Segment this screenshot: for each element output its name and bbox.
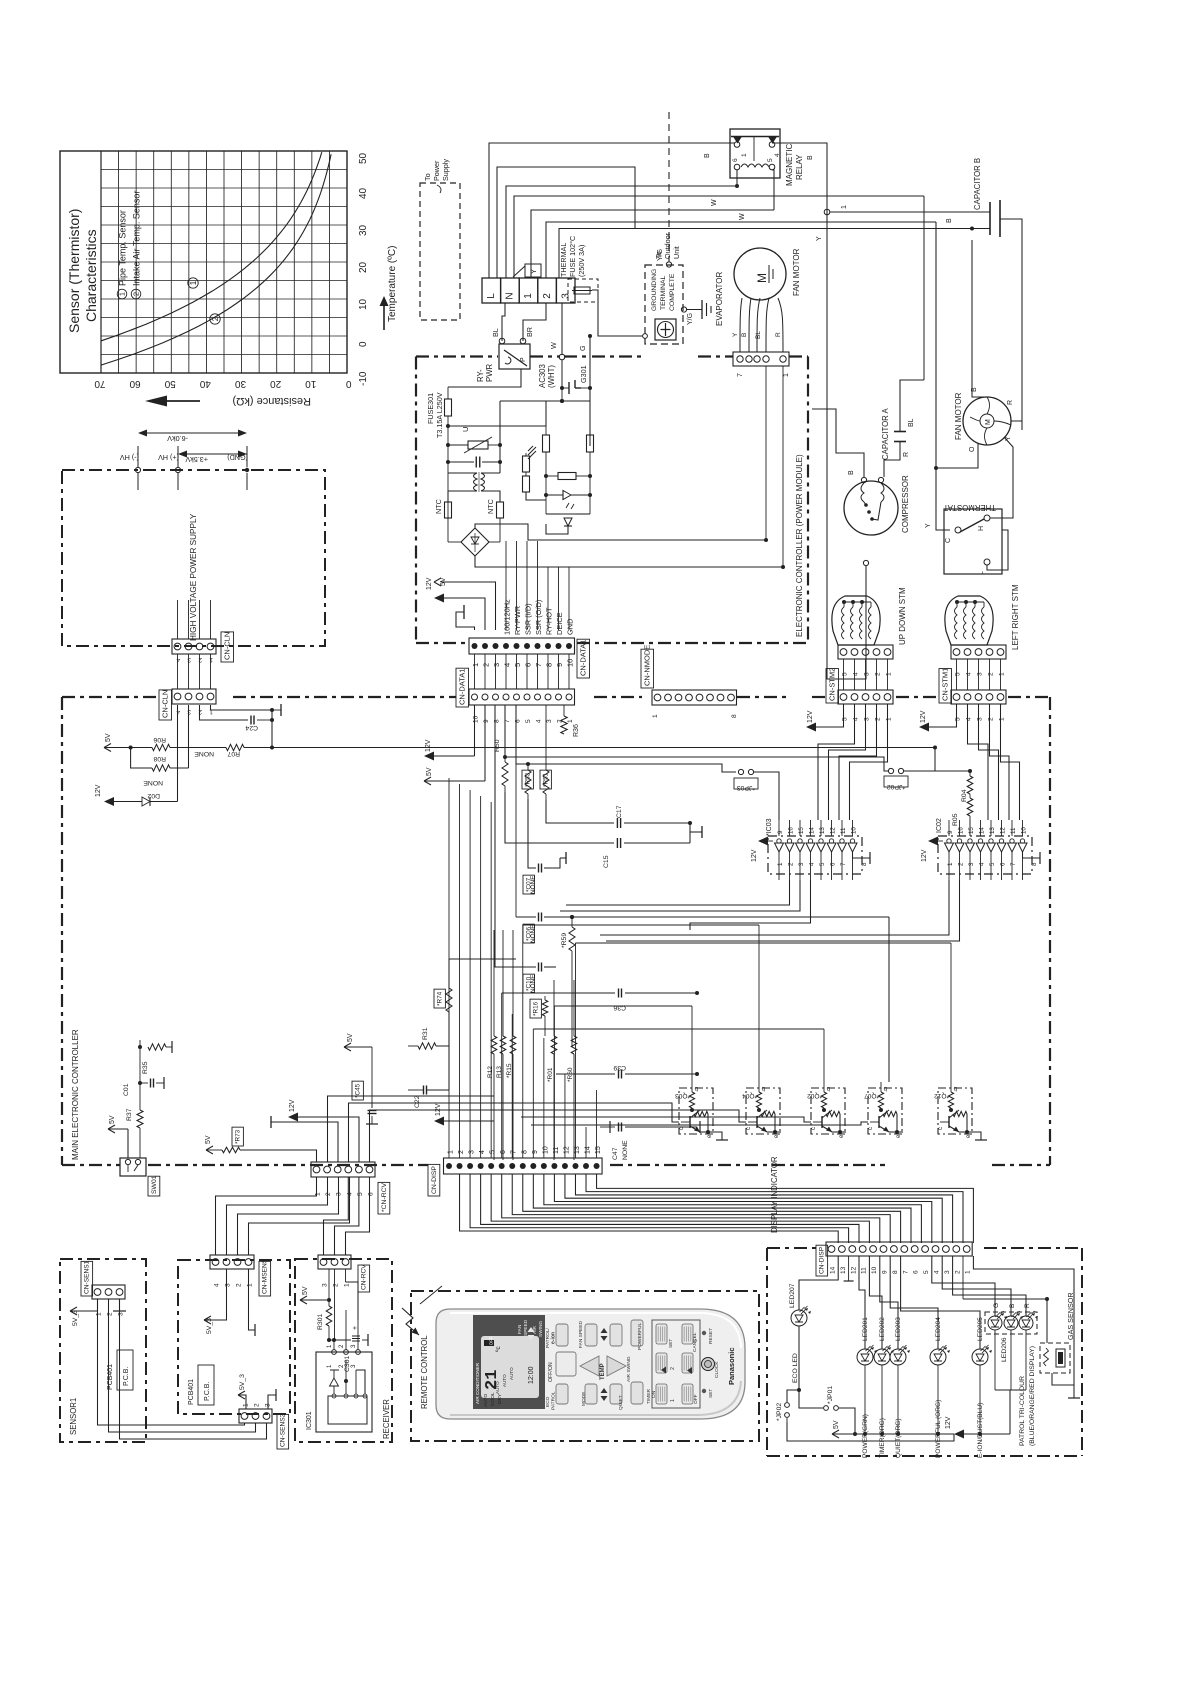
svg-text:*R53: *R53	[524, 772, 531, 787]
bus line C 5V12V	[424, 705, 485, 785]
svg-text:2: 2	[198, 656, 202, 663]
svg-text:C17: C17	[616, 805, 623, 818]
wire nest to fan B	[559, 227, 974, 279]
12V rail display	[945, 1365, 1010, 1439]
svg-text:1: 1	[670, 1399, 676, 1402]
REMOTE CONTROL box	[411, 1291, 759, 1441]
svg-text:FUSE 102°C: FUSE 102°C	[568, 236, 577, 277]
connector CN-RCV main	[311, 1162, 375, 1196]
svg-text:3: 3	[864, 672, 871, 676]
svg-text:1: 1	[777, 862, 784, 866]
svg-text:BL: BL	[908, 418, 915, 427]
To Power Supply dashed box	[420, 183, 460, 320]
svg-text:Outdoor: Outdoor	[663, 232, 672, 259]
label CN-STM2 boxed	[826, 668, 839, 703]
svg-text:W: W	[739, 213, 746, 220]
svg-text:LEFT RIGHT STM: LEFT RIGHT STM	[1011, 584, 1020, 650]
svg-text:B: B	[807, 155, 814, 160]
jumper JP02	[884, 768, 970, 790]
resistance axis tick labels	[94, 378, 352, 389]
svg-text:5: 5	[955, 717, 962, 721]
svg-text:R08: R08	[153, 755, 166, 762]
resistor R59	[561, 915, 575, 1046]
svg-text:15: 15	[968, 827, 975, 834]
svg-text:20: 20	[358, 261, 369, 273]
capacitor B	[972, 158, 1022, 421]
q12 ground	[973, 1132, 987, 1140]
svg-text:5V_3: 5V_3	[72, 1310, 79, 1326]
wire capB to fan B	[972, 240, 987, 397]
svg-text:Y: Y	[925, 523, 932, 528]
svg-text:16: 16	[958, 827, 965, 834]
label PCB401 sensor1	[107, 1350, 133, 1390]
wire terminal1 to capacitorA	[923, 196, 925, 380]
svg-text:3: 3	[798, 862, 805, 866]
svg-text:12V: 12V	[95, 784, 102, 797]
ic301 pin labels	[327, 1310, 360, 1368]
stm2 wires to IC03	[818, 704, 888, 820]
svg-text:*JP01: *JP01	[827, 1386, 834, 1404]
wire relay coil pin6	[736, 170, 738, 186]
svg-text:R06: R06	[153, 736, 166, 743]
svg-text:2: 2	[325, 1192, 332, 1196]
svg-text:1: 1	[841, 205, 848, 209]
jumper JP03	[734, 769, 779, 820]
svg-text:AUTO: AUTO	[502, 1374, 507, 1387]
wire relay contact to compressor	[772, 143, 866, 679]
svg-text:SWING: SWING	[538, 1320, 544, 1337]
svg-text:C01: C01	[123, 1083, 130, 1096]
svg-text:IC301: IC301	[306, 1411, 313, 1430]
YG node top	[657, 249, 672, 267]
svg-text:2: 2	[788, 862, 795, 866]
svg-text:Panasonic: Panasonic	[727, 1347, 736, 1385]
module pin wires and 5V 12V arrows	[426, 541, 569, 630]
svg-text:LED206: LED206	[1001, 1337, 1008, 1362]
svg-text:SENSOR1: SENSOR1	[69, 1398, 78, 1435]
svg-text:DISPLAY INDICATOR: DISPLAY INDICATOR	[770, 1156, 779, 1233]
svg-text:C47: C47	[612, 1147, 619, 1160]
remote timer group	[646, 1320, 700, 1408]
svg-text:1: 1	[999, 717, 1006, 721]
svg-text:R: R	[1024, 1303, 1031, 1308]
svg-text:13: 13	[989, 827, 996, 834]
terminal (-) HV	[120, 446, 141, 490]
module horizontal resistor	[544, 473, 592, 480]
svg-text:3: 3	[977, 717, 984, 721]
5V_3 arrow mid	[204, 1269, 227, 1334]
svg-text:P: P	[520, 357, 527, 362]
svg-text:ON: ON	[651, 1390, 657, 1398]
svg-text:4: 4	[809, 862, 816, 866]
svg-text:Unit: Unit	[672, 246, 681, 259]
outdoor fan motor	[954, 387, 1014, 452]
capacitor C36	[533, 989, 699, 1012]
capacitor in module	[446, 457, 502, 468]
svg-text:ECO: ECO	[545, 1396, 551, 1407]
svg-text:CAPACITOR B: CAPACITOR B	[973, 158, 982, 210]
cn-disp riser wires	[449, 778, 597, 1158]
transformer	[448, 472, 500, 502]
YG earth	[681, 300, 711, 325]
12V arrow stm1	[919, 704, 957, 732]
wire nest to capacitor A	[514, 196, 924, 278]
svg-text:5V_3: 5V_3	[206, 1318, 213, 1334]
svg-text:B: B	[1009, 1304, 1016, 1308]
wire compressor B from module	[812, 409, 915, 477]
svg-text:L: L	[486, 293, 497, 299]
svg-text:e-ion: e-ion	[551, 1332, 557, 1344]
svg-text:1: 1	[947, 862, 954, 866]
svg-text:16: 16	[788, 827, 795, 834]
svg-text:5: 5	[767, 158, 774, 162]
svg-text:1: 1	[247, 1283, 254, 1287]
svg-text:2: 2	[132, 292, 141, 296]
optocoupler diodes	[546, 495, 590, 534]
label CN-DATA1 boxed main	[456, 668, 469, 707]
+3.5kV dimension arrow	[178, 451, 247, 465]
resistor R05	[952, 794, 973, 836]
connector CN-CLN (main side)	[172, 689, 216, 715]
svg-text:UP DOWN STM: UP DOWN STM	[898, 587, 907, 645]
label SW01 boxed	[148, 1175, 160, 1196]
svg-text:PCB401: PCB401	[188, 1379, 195, 1405]
svg-text:OFF: OFF	[693, 1394, 699, 1404]
svg-text:REMOTE CONTROL: REMOTE CONTROL	[420, 1335, 429, 1409]
svg-text:MODE: MODE	[581, 1392, 587, 1406]
resistor R04	[961, 769, 973, 802]
svg-text:DEICE: DEICE	[555, 612, 564, 635]
msens wire fan	[216, 1177, 350, 1255]
svg-text:U: U	[461, 427, 470, 432]
capacitor C39	[556, 1064, 699, 1079]
svg-text:6: 6	[1000, 862, 1007, 866]
wire BL drop	[491, 303, 505, 341]
svg-text:13: 13	[840, 1266, 847, 1274]
To Outdoor Unit dashed wire	[654, 112, 681, 262]
thermostat	[943, 503, 1008, 575]
svg-text:3: 3	[560, 293, 571, 299]
svg-text:POWER(GRN): POWER(GRN)	[862, 1414, 869, 1458]
svg-text:GROUNDING: GROUNDING	[651, 269, 658, 311]
svg-text:12V: 12V	[426, 577, 433, 590]
svg-text:FAN: FAN	[517, 1324, 523, 1334]
label CN-MSENS boxed	[259, 1258, 271, 1296]
svg-text:c: c	[679, 1127, 685, 1130]
5V_3 arrow sens2	[238, 1374, 246, 1409]
wire fan O	[936, 443, 978, 468]
RECEIVER box	[295, 1259, 392, 1442]
bus line A	[505, 705, 888, 771]
svg-text:MAIN ELECTRONIC CONTROLLER: MAIN ELECTRONIC CONTROLLER	[71, 1029, 80, 1160]
svg-text:T3.15A L250V: T3.15A L250V	[435, 392, 444, 438]
svg-text:4: 4	[934, 1270, 941, 1274]
svg-text:CN-SENS1: CN-SENS1	[84, 1260, 91, 1294]
svg-text:NONE: NONE	[622, 1140, 629, 1160]
svg-text:100/120Hz: 100/120Hz	[503, 599, 512, 635]
svg-text:5: 5	[989, 862, 996, 866]
svg-text:G: G	[993, 1303, 1000, 1308]
graph curve 2 (intake air temp sensor)	[101, 154, 331, 365]
svg-text:R: R	[775, 332, 782, 337]
module resistor B	[587, 401, 594, 476]
wire thermal fuse to grounding	[578, 290, 647, 446]
svg-text:2: 2	[482, 663, 491, 667]
svg-text:2: 2	[236, 1283, 243, 1287]
svg-text:3: 3	[944, 1270, 951, 1274]
svg-text:c: c	[811, 1127, 817, 1130]
svg-text:*Q03: *Q03	[675, 1092, 690, 1099]
middle PCB box	[178, 1260, 290, 1414]
capacitor C47 none	[600, 1121, 700, 1160]
svg-text:1: 1	[118, 292, 127, 296]
svg-text:Y: Y	[816, 236, 823, 241]
svg-text:C301: C301	[344, 1356, 351, 1372]
temperature axis label with arrow	[380, 246, 399, 330]
label CN-DATA1 boxed module	[577, 639, 590, 678]
connector CN-SENS2	[239, 1403, 272, 1423]
svg-text:ECO LED: ECO LED	[792, 1353, 799, 1383]
svg-text:3: 3	[225, 1283, 232, 1287]
curve marker 1	[188, 278, 198, 288]
svg-text:3: 3	[187, 656, 191, 663]
svg-text:5: 5	[513, 663, 522, 667]
fan connector wires down	[766, 366, 783, 567]
connector CN-DATA1 main side	[469, 654, 575, 723]
svg-text:G301: G301	[579, 365, 588, 383]
svg-text:R36: R36	[573, 724, 580, 737]
up down stepper motor	[832, 587, 907, 645]
svg-text:0: 0	[358, 341, 369, 347]
svg-text:2: 2	[988, 717, 995, 721]
curve marker 2	[210, 314, 220, 324]
graph: Sensor (Thermistor) Characteristics box	[60, 151, 347, 373]
svg-text:1: 1	[315, 1192, 322, 1196]
svg-text:14: 14	[979, 827, 986, 834]
connector CN-CLN (hv side)	[172, 639, 216, 663]
svg-text:R: R	[903, 452, 910, 457]
svg-text:COMPLETE: COMPLETE	[669, 273, 676, 311]
power module dash-dot border	[416, 357, 808, 644]
svg-text:10: 10	[871, 1266, 878, 1274]
svg-text:CLOCK: CLOCK	[714, 1361, 720, 1378]
graph legend	[117, 191, 141, 299]
svg-text:10: 10	[566, 659, 575, 667]
svg-text:NONE: NONE	[530, 975, 537, 993]
connector CN-RCV receiver	[318, 1255, 351, 1287]
svg-text:GND: GND	[566, 619, 575, 635]
svg-text:E-ION/DUST(BLU): E-ION/DUST(BLU)	[977, 1403, 984, 1458]
jumper JP02 display	[776, 1398, 789, 1422]
svg-text:1: 1	[96, 1312, 103, 1316]
svg-text:8: 8	[892, 1270, 899, 1274]
fuse FUSE301	[426, 387, 452, 438]
svg-text:7: 7	[737, 373, 744, 377]
5V arrow left rail	[104, 733, 152, 751]
svg-text:SET: SET	[708, 1389, 714, 1398]
relay RY-PWR switch	[499, 338, 530, 369]
wire nest to relay coil 5	[531, 199, 774, 278]
svg-text:2: 2	[542, 293, 553, 299]
svg-text:2: 2	[211, 316, 220, 321]
svg-text:W: W	[549, 342, 558, 349]
svg-text:50: 50	[164, 378, 176, 389]
svg-text:1: 1	[471, 663, 480, 667]
resistor R36	[561, 705, 580, 737]
label RY-PWR	[476, 363, 494, 382]
svg-text:1: 1	[567, 719, 574, 723]
svg-text:0: 0	[346, 378, 352, 389]
svg-text:DRY: DRY	[497, 1393, 503, 1404]
transistor Q07	[864, 1082, 903, 1138]
svg-text:4: 4	[853, 717, 860, 721]
resistor R35 C01 chain	[123, 1040, 172, 1100]
svg-text:3: 3	[265, 1403, 272, 1407]
svg-text:D02: D02	[147, 792, 160, 799]
svg-text:CN-SENS2: CN-SENS2	[280, 1413, 287, 1447]
svg-text:14: 14	[809, 827, 816, 834]
svg-text:10: 10	[1021, 827, 1028, 834]
leds 201-205	[857, 1317, 992, 1365]
svg-text:9: 9	[777, 830, 784, 834]
sensor1 ground	[113, 1299, 126, 1311]
svg-text:SSR (I/D): SSR (I/D)	[524, 603, 533, 635]
svg-text:BR: BR	[525, 327, 534, 337]
label MAGNETIC RELAY	[785, 144, 804, 186]
svg-text:AUTO: AUTO	[509, 1367, 514, 1380]
svg-text:1: 1	[886, 717, 893, 721]
svg-text:NONE: NONE	[530, 925, 537, 943]
svg-text:1: 1	[999, 672, 1006, 676]
ground rcv	[271, 1116, 338, 1162]
transistor Q03	[675, 1082, 714, 1138]
svg-text:TERMINAL: TERMINAL	[660, 275, 667, 310]
svg-text:3: 3	[118, 1312, 125, 1316]
svg-text:4: 4	[966, 717, 973, 721]
svg-text:10: 10	[305, 378, 317, 389]
svg-text:Resistance (kΩ): Resistance (kΩ)	[232, 395, 311, 407]
connector CN-DATA1 module side	[469, 638, 575, 667]
svg-text:Intake Air Temp. Sensor: Intake Air Temp. Sensor	[132, 191, 142, 286]
-6.0kV dimension arrow	[138, 430, 247, 444]
q collector feed wires	[523, 925, 951, 1082]
svg-text:M: M	[755, 273, 769, 283]
svg-text:5: 5	[819, 862, 826, 866]
svg-text:2: 2	[958, 862, 965, 866]
svg-text:C15: C15	[603, 855, 610, 868]
svg-text:Y/G: Y/G	[657, 249, 664, 261]
svg-text:FAN MOTOR: FAN MOTOR	[792, 248, 801, 296]
wire terminal3 to thermostat	[925, 222, 950, 530]
svg-text:C24: C24	[245, 724, 258, 731]
svg-text:G: G	[578, 345, 587, 351]
svg-text:Y/G: Y/G	[687, 313, 694, 325]
svg-text:12:00: 12:00	[528, 1366, 535, 1384]
svg-text:RECEIVER: RECEIVER	[382, 1399, 391, 1439]
capacitor C301	[329, 1326, 368, 1372]
12V arrow rcv	[288, 1099, 359, 1162]
transistor Q12	[934, 1082, 973, 1138]
svg-text:C: C	[945, 538, 952, 543]
wire fan R	[1011, 421, 1022, 430]
svg-text:*R51: *R51	[542, 772, 549, 787]
svg-text:10: 10	[358, 298, 369, 310]
svg-text:11: 11	[840, 827, 847, 834]
svg-text:FUSE301: FUSE301	[426, 393, 435, 424]
svg-text:NONE: NONE	[194, 750, 214, 757]
ir lightning bolt	[402, 1286, 442, 1335]
indoor fan motor	[734, 248, 801, 300]
svg-text:MAGNETIC: MAGNETIC	[785, 144, 794, 186]
sens2 ground	[268, 1389, 276, 1409]
svg-text:5: 5	[955, 672, 962, 676]
svg-text:12V: 12V	[425, 739, 432, 752]
wire junction to capacitor B	[830, 212, 990, 223]
wire fan Y to thermostat H	[990, 437, 1013, 518]
ic outputs to bundle	[560, 880, 960, 941]
svg-text:R04: R04	[961, 789, 968, 802]
svg-text:RESET: RESET	[708, 1328, 714, 1344]
capacitor A	[881, 380, 924, 477]
svg-text:*R60: *R60	[567, 1067, 574, 1082]
resistors R12 R13 R15	[487, 930, 516, 1160]
svg-text:SET: SET	[668, 1339, 674, 1348]
svg-text:TIMER(ORG): TIMER(ORG)	[879, 1418, 886, 1458]
svg-text:CAPACITOR A: CAPACITOR A	[881, 407, 890, 460]
5V_3 arrow sensor1	[70, 1299, 98, 1326]
svg-text:R35: R35	[142, 1061, 149, 1074]
bridge rectifier	[448, 518, 500, 556]
bus line B	[516, 705, 736, 772]
svg-text:PATROL TRI-COLOUR: PATROL TRI-COLOUR	[1019, 1376, 1026, 1446]
svg-text:R12: R12	[487, 1066, 494, 1078]
Y flag on terminal block	[513, 264, 541, 277]
svg-text:1: 1	[741, 153, 748, 157]
connector CN-SENS1	[92, 1285, 125, 1316]
G junction dots	[560, 388, 564, 403]
svg-text:-10: -10	[358, 371, 369, 386]
module internal top wire	[448, 369, 521, 387]
diode D02 none	[95, 705, 178, 806]
svg-text:c: c	[938, 1127, 944, 1130]
svg-text:CN-DISP: CN-DISP	[819, 1246, 826, 1274]
wire W drop	[549, 303, 562, 355]
led206 wires	[932, 1256, 1026, 1434]
svg-text:9: 9	[555, 663, 564, 667]
svg-text:4: 4	[214, 1283, 221, 1287]
svg-text:CN-CLN: CN-CLN	[223, 632, 232, 660]
connector CN-DISP main	[444, 1146, 603, 1174]
svg-text:-6.0kV: -6.0kV	[167, 434, 188, 443]
svg-text:60: 60	[129, 378, 141, 389]
svg-text:C36: C36	[613, 1004, 626, 1011]
svg-text:2: 2	[875, 672, 882, 676]
IC03 inverter array	[751, 820, 870, 880]
svg-text:5: 5	[923, 1270, 930, 1274]
svg-text:ºc: ºc	[495, 1346, 502, 1352]
svg-text:3: 3	[492, 663, 501, 667]
svg-text:12V: 12V	[945, 1416, 952, 1429]
svg-text:Pipe Temp. Sensor: Pipe Temp. Sensor	[118, 210, 128, 286]
capacitor AC303	[538, 360, 590, 394]
label CN-DISP boxed main	[428, 1164, 440, 1196]
SENSOR1 box	[60, 1259, 146, 1442]
svg-text:6: 6	[913, 1270, 920, 1274]
led feed wires	[844, 1256, 980, 1349]
svg-text:QUIET: QUIET	[618, 1395, 624, 1410]
capacitor C22	[408, 1086, 449, 1109]
svg-text:*R01: *R01	[547, 1067, 554, 1082]
